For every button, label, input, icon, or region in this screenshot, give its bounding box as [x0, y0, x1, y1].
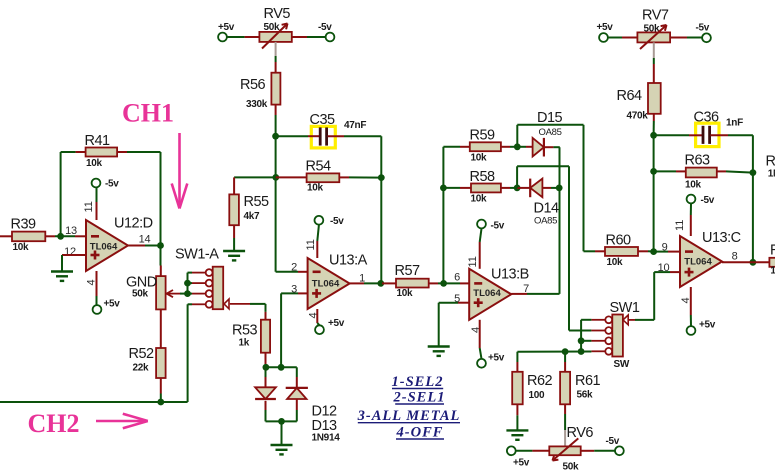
power terminal -5v RV5 — [326, 33, 335, 42]
svg-text:-5v: -5v — [701, 195, 715, 206]
wire pin13 stub — [75, 235, 86, 237]
node pin3 riser join — [278, 364, 285, 371]
node at U12:D pin 13 — [57, 233, 64, 240]
wire RV6 right — [581, 450, 595, 452]
svg-text:+5v: +5v — [699, 320, 716, 331]
wire R64 bottom — [653, 114, 655, 121]
potentiometer RV7 — [637, 8, 670, 43]
wire SW1-A contact4 riser — [187, 304, 189, 402]
wire R61 hanger — [564, 352, 566, 362]
svg-text:11: 11 — [305, 239, 317, 250]
wire U13:B pin 5 to ground — [458, 302, 469, 304]
svg-text:50k: 50k — [264, 22, 281, 33]
svg-text:R64: R64 — [617, 88, 643, 104]
svg-text:3: 3 — [291, 283, 297, 295]
ground at U12:D pin 12 — [51, 272, 73, 281]
power terminal +5v RV5 — [218, 33, 227, 42]
node D14 cathode — [514, 185, 521, 192]
wire U12:D pin 11 to -5v — [96, 202, 98, 220]
wire SW1-A wiper to R53 — [250, 303, 266, 305]
svg-text:-5v: -5v — [330, 216, 344, 227]
svg-text:11: 11 — [674, 220, 686, 231]
node R61 top — [562, 348, 569, 355]
wire U13:B pin 11 to -5v — [479, 242, 481, 269]
wire pin 3 riser — [280, 293, 282, 367]
node R54 left — [272, 174, 279, 181]
svg-text:R53: R53 — [232, 323, 258, 339]
wire diode top rail — [266, 366, 297, 368]
svg-text:12: 12 — [64, 246, 76, 258]
wire output node down to GND pot — [160, 246, 162, 266]
wire D14 cathode stub — [517, 187, 530, 189]
svg-text:+5v: +5v — [218, 22, 235, 33]
svg-text:13: 13 — [65, 225, 77, 237]
svg-text:56k: 56k — [577, 390, 594, 401]
wire C35 left — [278, 135, 308, 137]
svg-text:100: 100 — [529, 390, 546, 401]
wire D13 top — [296, 367, 298, 377]
wire U13:A pin 4 to +5v — [316, 309, 318, 323]
diode D12 — [255, 387, 276, 399]
wire R63 right — [726, 171, 753, 172]
svg-text:R57: R57 — [395, 263, 421, 279]
svg-text:470k: 470k — [627, 111, 649, 122]
power terminal +5v U13:A — [315, 325, 324, 334]
wire U13:A pin 11 to -5v — [316, 241, 318, 258]
svg-text:2: 2 — [291, 262, 297, 274]
wire R39 input from left edge — [0, 235, 12, 237]
SW1-A contact 1 — [206, 269, 213, 276]
wire SW1 contact1 drop — [581, 319, 591, 321]
svg-text:47nF: 47nF — [344, 120, 366, 131]
svg-text:3-ALL METAL: 3-ALL METAL — [357, 408, 461, 424]
wire U12:D output pin 14 — [128, 245, 145, 247]
wire C36/R63 right rail — [752, 135, 754, 262]
resistor R66 clipped at edge — [769, 243, 775, 277]
svg-text:R54: R54 — [306, 159, 332, 175]
wire pin 9 stub — [654, 251, 668, 253]
potentiometer RV6 — [549, 425, 593, 471]
svg-text:R62: R62 — [527, 373, 553, 389]
wire D14 cathode to SW contact 2 route — [516, 166, 518, 188]
power terminal -5v U12:D — [92, 179, 101, 188]
power terminal -5v U13:A — [315, 216, 324, 225]
svg-text:10k: 10k — [471, 153, 488, 164]
resistor R41 — [76, 133, 127, 169]
rotary switch SW1 — [610, 300, 640, 370]
node R63 left — [650, 168, 657, 175]
node D14 anode on output riser — [556, 185, 563, 192]
wire RV5 right — [292, 36, 307, 38]
wire R63 left stub — [654, 170, 676, 172]
op-amp U13:B — [469, 267, 529, 320]
op-amp U12:D — [86, 216, 153, 272]
wire to U13:A pin 2 — [276, 271, 298, 273]
capacitor C35 with highlight — [308, 112, 366, 148]
resistor R56 — [240, 73, 280, 110]
svg-text:1k: 1k — [770, 266, 775, 277]
resistor R55 — [229, 194, 269, 225]
svg-text:TL064: TL064 — [684, 257, 712, 268]
svg-text:R59: R59 — [470, 128, 496, 144]
wire U13:C output pin 8 — [722, 261, 753, 263]
capacitor C36 with highlight — [689, 110, 743, 147]
RV5 adjust arrow — [262, 24, 288, 49]
SW1 contact 3 — [605, 337, 612, 344]
wire R61 bottom to RV6 wiper — [564, 404, 566, 414]
svg-text:9: 9 — [662, 242, 668, 254]
svg-text:1nF: 1nF — [726, 118, 743, 129]
diode D15 — [533, 138, 544, 157]
svg-text:2-SEL1: 2-SEL1 — [393, 390, 446, 406]
node at U12:D output — [157, 242, 164, 249]
wire R53 bottom — [265, 353, 267, 364]
power terminal -5v RV6 — [615, 446, 624, 455]
wire R55 hanger — [233, 177, 235, 194]
op-amp U13:C — [680, 230, 741, 287]
svg-text:D15: D15 — [537, 110, 563, 126]
node R56-C35 — [272, 133, 279, 140]
ground at D12/D13 — [271, 445, 293, 454]
wire C35 right rail down — [380, 136, 382, 283]
resistor R53 — [232, 320, 270, 353]
wire R56 bottom — [275, 105, 277, 115]
arrow CH2 — [96, 414, 148, 429]
wire U13:A output — [350, 282, 364, 284]
power terminal +5v U13:B — [477, 359, 486, 368]
node R57 right — [440, 280, 447, 287]
wire D15 anode stub — [517, 146, 526, 148]
wire U12:D pin 12 to ground — [62, 254, 86, 256]
svg-text:R52: R52 — [129, 346, 155, 362]
svg-text:+5v: +5v — [328, 318, 345, 329]
svg-text:SW1: SW1 — [610, 300, 640, 316]
svg-text:11: 11 — [83, 201, 95, 212]
node R52 on CH2 rail — [157, 399, 164, 406]
svg-text:-5v: -5v — [318, 22, 332, 33]
node R54 right — [378, 174, 385, 181]
ground at U13:B pin 5 — [428, 347, 450, 356]
svg-text:R63: R63 — [685, 153, 711, 169]
GND pot wiper arrow — [167, 290, 181, 297]
svg-text:1N914: 1N914 — [312, 433, 341, 444]
node R58 left — [440, 185, 447, 192]
power terminal +5v RV6 — [507, 446, 516, 455]
svg-text:R55: R55 — [244, 194, 270, 210]
wire U13:B output pin 7 — [511, 293, 527, 295]
svg-text:D14: D14 — [534, 201, 560, 217]
resistor R52 — [129, 346, 166, 378]
wire RV7 left — [608, 37, 622, 39]
svg-text:U13:B: U13:B — [491, 267, 529, 283]
wire U13:C pin 11 to -5v — [690, 215, 692, 236]
wire R60 right — [638, 250, 648, 252]
wire C35 right — [344, 135, 381, 137]
svg-text:330k: 330k — [246, 99, 268, 110]
wire R59 right — [510, 146, 517, 148]
node C36 left — [650, 132, 657, 139]
svg-text:U13:C: U13:C — [702, 230, 741, 246]
resistor R59 — [460, 128, 510, 164]
svg-text:R65: R65 — [766, 154, 775, 170]
svg-text:10k: 10k — [471, 194, 488, 205]
svg-text:+5v: +5v — [488, 353, 505, 364]
resistor R60 — [605, 233, 638, 269]
ground at R55 — [223, 251, 245, 260]
wire SW1-A contact 4 to riser — [188, 303, 192, 305]
svg-text:R58: R58 — [470, 169, 496, 185]
wire SW1-A contacts 1-3 bus — [188, 272, 193, 274]
wire D14 anode — [542, 187, 551, 189]
node SW1 contact3 — [578, 337, 585, 344]
wire U13:B pin 6 stub — [460, 282, 469, 284]
resistor R63 — [676, 153, 726, 191]
wire U13:A pin 3 stub — [298, 292, 308, 294]
wire GND pot wiper to SW1-A — [180, 293, 188, 295]
RV7 adjust arrow — [640, 25, 667, 49]
wire to diode ground — [281, 421, 283, 445]
resistor R64 — [617, 83, 661, 122]
svg-text:6: 6 — [454, 272, 460, 284]
wire D12 bottom — [265, 401, 267, 410]
node R63 right — [750, 169, 757, 176]
svg-text:RV7: RV7 — [642, 8, 669, 24]
svg-text:RV6: RV6 — [567, 425, 594, 441]
diode D14 — [530, 179, 542, 198]
wire C36 left — [654, 134, 689, 136]
resistor R39 — [11, 217, 46, 254]
wire RV7 right — [670, 37, 687, 39]
svg-text:SW1-A: SW1-A — [175, 247, 219, 263]
node SW1-A contact2 join — [184, 280, 191, 287]
node R53-D12 — [263, 364, 270, 371]
svg-text:1k: 1k — [239, 338, 250, 349]
svg-text:CH2: CH2 — [28, 409, 80, 438]
svg-text:1M: 1M — [768, 169, 775, 180]
svg-text:10k: 10k — [397, 288, 414, 299]
label block switch positions — [357, 374, 461, 441]
svg-text:TL064: TL064 — [312, 279, 340, 290]
svg-text:TL064: TL064 — [473, 288, 501, 299]
svg-text:R61: R61 — [575, 373, 601, 389]
svg-text:+5v: +5v — [597, 22, 614, 33]
wire R39 to node — [45, 235, 55, 237]
svg-text:8: 8 — [732, 251, 738, 263]
svg-text:10k: 10k — [86, 158, 103, 169]
svg-text:SW: SW — [614, 359, 630, 370]
svg-text:U13:A: U13:A — [329, 253, 368, 269]
svg-text:R66: R66 — [770, 243, 775, 259]
svg-text:U12:D: U12:D — [114, 216, 153, 232]
wire U13:C pin 4 to +5v — [690, 287, 692, 315]
svg-text:10: 10 — [658, 262, 670, 274]
svg-text:22k: 22k — [133, 363, 150, 374]
resistor R61 — [560, 372, 600, 405]
wire D15 feedback riser — [516, 125, 518, 147]
power terminal -5v RV7 — [702, 33, 711, 42]
resistor R58 — [460, 169, 510, 205]
wire R58 right — [510, 187, 517, 189]
node U13:A output — [377, 280, 384, 287]
svg-text:+5v: +5v — [104, 299, 121, 310]
wire D15 cathode — [544, 146, 554, 148]
wire R41 right to output riser — [127, 151, 161, 153]
SW1-A contact 3 — [206, 290, 213, 297]
wire R62 hanger — [516, 352, 518, 362]
wire R57 right to pin6 — [438, 282, 460, 284]
potentiometer GND 50k — [126, 275, 166, 310]
svg-text:-5v: -5v — [696, 23, 710, 34]
svg-text:-5v: -5v — [105, 179, 119, 190]
wire output to R66 at edge — [753, 261, 770, 263]
svg-text:R60: R60 — [606, 233, 632, 249]
wire GND pot bottom to R52 — [160, 309, 162, 348]
svg-text:C35: C35 — [310, 112, 336, 128]
svg-text:4k7: 4k7 — [244, 211, 261, 222]
wire R58 left stub — [443, 187, 460, 189]
svg-text:14: 14 — [139, 234, 151, 246]
wire bottom bus rail — [517, 351, 591, 353]
op-amp U13:A — [308, 253, 368, 310]
svg-text:7: 7 — [523, 283, 529, 295]
svg-text:4-OFF: 4-OFF — [396, 425, 444, 441]
potentiometer RV5 — [259, 6, 291, 42]
wire SW1 contact3 join — [581, 340, 591, 342]
svg-text:CH1: CH1 — [122, 99, 174, 128]
wire R62 bottom to ground — [516, 404, 518, 415]
resistor R57 — [382, 263, 438, 299]
svg-text:50k: 50k — [132, 289, 149, 300]
SW1-A contact 2 — [206, 280, 213, 287]
svg-text:R41: R41 — [85, 133, 111, 149]
svg-text:R39: R39 — [11, 217, 37, 233]
node D15 anode — [514, 143, 521, 150]
svg-text:11: 11 — [467, 256, 479, 267]
wire RV6 left — [516, 450, 533, 452]
SW1 contact 2 — [605, 327, 612, 334]
wire R58/R59 left rail — [442, 147, 444, 284]
svg-text:1-SEL2: 1-SEL2 — [392, 374, 444, 390]
wire C36 right — [728, 134, 753, 136]
RV7 wiper stub — [653, 42, 655, 58]
svg-text:-5v: -5v — [491, 221, 505, 232]
svg-text:OA85: OA85 — [534, 216, 557, 227]
svg-text:10k: 10k — [13, 242, 30, 253]
wire R54 left rail — [234, 176, 276, 178]
wire CH2 input rail — [0, 401, 188, 403]
node diode bottom — [278, 418, 285, 425]
ground at R62 — [506, 430, 528, 439]
svg-text:TL064: TL064 — [90, 242, 118, 253]
power terminal +5v RV7 — [599, 33, 608, 42]
wire C36 left rail down — [653, 135, 655, 251]
svg-text:OA85: OA85 — [539, 127, 562, 138]
power terminal +5v U13:C — [687, 326, 696, 335]
power terminal +5v U12:D — [93, 305, 102, 314]
svg-text:10k: 10k — [607, 257, 624, 268]
resistor R62 — [512, 372, 552, 405]
wire D12 top — [265, 367, 267, 377]
wire feedback left riser — [60, 152, 62, 236]
power terminal -5v U13:B — [477, 220, 486, 229]
SW1-A contact 4 — [206, 301, 213, 308]
wire R54 right to rail — [349, 176, 381, 178]
SW1 contact 1 — [605, 316, 612, 323]
wire C35 left rail down — [275, 136, 277, 272]
svg-text:50k: 50k — [563, 462, 580, 471]
wire SW1 wiper to U13:C pin 10 — [635, 319, 654, 321]
wire D13 bottom — [296, 399, 298, 410]
wire R55 bottom — [233, 225, 235, 238]
node SW1-A contact3 join — [184, 290, 191, 297]
svg-text:10k: 10k — [307, 183, 324, 194]
wire U13:B pin 4 to +5v — [479, 320, 481, 348]
SW1 wiper arrow — [623, 315, 628, 325]
wire U12:D pin 4 to +5v — [96, 271, 98, 296]
RV5 wiper stub — [275, 42, 277, 56]
arrow CH1 — [172, 133, 188, 209]
SW1 contact 4 — [605, 348, 612, 355]
wire R60 left stub — [595, 250, 605, 252]
svg-text:+5v: +5v — [513, 458, 530, 469]
wire R52 bottom to CH2 rail — [160, 378, 162, 394]
wire diode bottom rail — [266, 420, 297, 422]
svg-text:-5v: -5v — [606, 436, 620, 447]
node SW1 contact4 — [578, 348, 585, 355]
SW1-A wiper arrow — [224, 299, 229, 309]
svg-text:10k: 10k — [685, 180, 702, 191]
wire U13:B output riser — [559, 147, 561, 294]
svg-text:RV5: RV5 — [264, 6, 291, 22]
svg-text:C36: C36 — [694, 110, 720, 126]
wire RV5 left — [227, 36, 245, 38]
resistor R54 — [276, 159, 349, 194]
node U13:C output — [750, 259, 757, 266]
RV6 adjust arrow — [553, 438, 579, 460]
power terminal -5v U13:C — [687, 195, 696, 204]
node U13:C pin 9 — [650, 248, 657, 255]
rotary switch SW1-A — [175, 247, 223, 310]
svg-text:R56: R56 — [240, 77, 266, 93]
diode D13 — [286, 387, 308, 389]
